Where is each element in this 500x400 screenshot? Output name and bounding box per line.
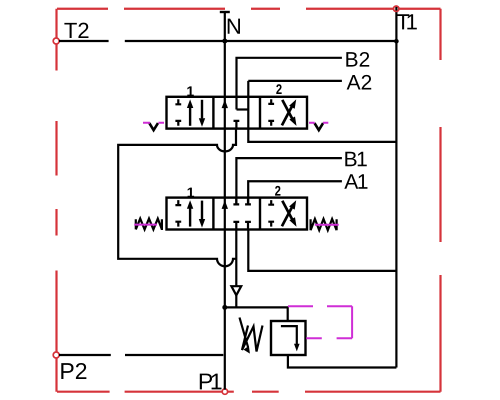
valve V2 pos1 blocked port bottom xyxy=(175,121,181,126)
valve V1 spring right zigzag xyxy=(311,219,337,230)
wire P2 xyxy=(59,354,223,356)
relief valve RV1 drain to tank xyxy=(288,355,397,368)
valve V2 neutral blocked port bottom xyxy=(234,121,240,129)
valve V1 spring left pilot line xyxy=(134,224,157,226)
valve V2 pos2 blocked port bottom xyxy=(268,121,274,126)
valve V1 neutral blocked port top left xyxy=(233,198,239,205)
valve V1 body (lower spool section) xyxy=(167,198,308,230)
port circle P1 xyxy=(222,389,227,394)
node dot P1 junction xyxy=(222,305,227,310)
label P2 xyxy=(61,363,86,379)
valve V1 pos1 blocked port top xyxy=(175,200,181,205)
wire A2 / tank path of valve 1 xyxy=(248,81,396,142)
wire N trunk (P supply down to P1) xyxy=(224,12,226,390)
valve V1 pos2 blocked port bottom xyxy=(268,222,274,227)
valve V2 pos1 up arrow xyxy=(189,107,191,126)
valve V2 pos1 blocked port top xyxy=(175,99,181,104)
valve V2 pos2 crossed arrow up xyxy=(282,106,292,125)
wire B1 xyxy=(236,158,342,204)
label B2 xyxy=(346,52,369,67)
relief valve RV1 body xyxy=(271,321,306,355)
label A1 xyxy=(344,174,367,188)
wire jog inside valve1 neutral box xyxy=(237,108,249,110)
valve V2 spring right (simplified) xyxy=(315,123,324,130)
port circle P2 xyxy=(53,352,59,358)
valve V1 pos1 up arrow xyxy=(189,208,191,227)
wire T2 to T1 junction xyxy=(59,40,396,42)
wire B2 xyxy=(237,58,342,110)
wire carryover loop valve1 to valve2 xyxy=(118,129,236,267)
valve V2 pos2 crossed arrow down xyxy=(282,100,292,119)
valve V2 spring right pilot dashes xyxy=(309,122,328,124)
enclosure dashed border right xyxy=(439,9,441,392)
valve V1 spring right pilot line xyxy=(315,224,339,226)
wire relief feed xyxy=(225,307,288,321)
label A2 xyxy=(347,75,372,90)
label N xyxy=(228,19,240,34)
valve V1 pos1 blocked port bottom xyxy=(175,222,181,227)
valve V1 pos2 crossed arrow up xyxy=(282,207,292,226)
enclosure dashed border left xyxy=(55,9,57,392)
wire A2 label line xyxy=(248,80,342,82)
wire A1 xyxy=(248,181,342,204)
valve V2 pos1 down arrow xyxy=(201,100,203,119)
label B1 xyxy=(345,152,366,166)
valve V1 neutral N flow arrowhead xyxy=(222,200,228,209)
label valve V1 position 1 xyxy=(188,188,195,198)
node dot T1 trunk top xyxy=(394,39,399,44)
wire valve2 A-side tank line xyxy=(248,230,396,271)
valve V2 body (upper spool section) xyxy=(167,97,308,129)
valve V1 neutral blocked port top right xyxy=(245,198,251,205)
valve V2 spring left pilot dashes xyxy=(143,122,164,124)
flow arrow (hollow) to P1 node xyxy=(231,286,241,295)
port N cap xyxy=(220,11,230,13)
port circle T2 xyxy=(53,38,59,44)
port circle T1 ring overlay xyxy=(394,6,399,11)
label valve V2 position 2 xyxy=(276,84,281,94)
wire T1 return trunk xyxy=(395,6,397,368)
node dot N on T-line xyxy=(222,39,227,44)
label valve V2 position 1 xyxy=(187,86,194,96)
valve V1 pos2 crossed arrow down xyxy=(282,201,292,220)
relief valve RV1 adjustment arrow xyxy=(240,318,249,348)
valve V2 spring left (simplified) xyxy=(149,123,158,130)
label valve V1 position 2 xyxy=(275,186,280,196)
valve V1 neutral blocked port bottom left xyxy=(233,222,239,230)
wire valve2 B-port down to P1 node xyxy=(235,230,237,308)
port circle T1 xyxy=(394,6,399,11)
relief valve RV1 adjustable spring xyxy=(242,326,263,352)
label P1 xyxy=(200,374,222,390)
valve V1 neutral blocked port bottom right xyxy=(245,222,251,230)
label T2 xyxy=(64,23,88,38)
relief valve RV1 internal flow path xyxy=(281,326,297,344)
valve V1 pos1 down arrow xyxy=(201,201,203,220)
valve V1 pos2 blocked port top xyxy=(268,200,274,205)
label T1 xyxy=(397,14,417,29)
valve V2 pos2 blocked port top xyxy=(268,99,274,104)
valve V2 neutral N flow arrowhead xyxy=(222,100,228,109)
enclosure dashed border bottom xyxy=(57,391,441,393)
enclosure dashed border top xyxy=(57,8,441,10)
relief valve RV1 pilot line (dashed) xyxy=(288,306,352,338)
valve V1 spring left zigzag xyxy=(136,219,162,230)
